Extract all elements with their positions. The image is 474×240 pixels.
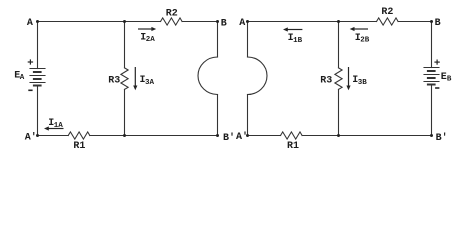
labels right circuit xyxy=(236,7,452,152)
wire R3 branch bottom (right) xyxy=(338,89,340,135)
svg-text:R1: R1 xyxy=(73,141,85,152)
wire R3 branch top (right) xyxy=(338,22,340,68)
battery EB plates xyxy=(424,68,439,85)
coupling arc right (bulge right) xyxy=(248,57,268,95)
wire right rail B to battery EB xyxy=(431,22,433,68)
svg-text:2B: 2B xyxy=(360,37,370,45)
wire top A to R3 junction and R2 xyxy=(248,21,377,23)
svg-text:1B: 1B xyxy=(293,37,303,45)
current arrows xyxy=(44,27,368,131)
node A (left circuit) xyxy=(36,20,39,23)
minus sign EB xyxy=(435,87,439,89)
node dots xyxy=(36,20,433,137)
wire right rail B to arc xyxy=(217,22,219,58)
svg-text:B': B' xyxy=(436,132,448,144)
svg-text:B: B xyxy=(435,18,441,29)
arrow I2B (left pointing) xyxy=(354,28,369,30)
node junction top R3 (right) xyxy=(337,20,340,23)
resistor R2 (right circuit) xyxy=(377,18,399,25)
plus sign EB xyxy=(434,61,439,63)
resistor R1 (left circuit) xyxy=(68,132,90,139)
node A' (right circuit) xyxy=(246,134,249,137)
node B' (right circuit) xyxy=(430,134,433,137)
node junction bottom R3 (right) xyxy=(337,134,340,137)
wire left rail A to arc (right circuit) xyxy=(247,22,249,58)
svg-text:A': A' xyxy=(25,132,37,144)
wire R1 to B' xyxy=(90,135,218,137)
wire R1 to B' (right) xyxy=(302,135,431,137)
resistor R3 (left circuit) xyxy=(121,68,128,90)
resistor R2 (left circuit) xyxy=(161,18,183,25)
minus sign EA xyxy=(28,89,32,91)
node junction bottom R3 (left) xyxy=(123,134,126,137)
svg-text:R1: R1 xyxy=(287,141,299,152)
node B (right circuit) xyxy=(430,20,433,23)
arrow I1B (left pointing) xyxy=(287,29,303,31)
svg-text:R3: R3 xyxy=(320,76,332,87)
node A (right circuit) xyxy=(246,20,249,23)
svg-text:3A: 3A xyxy=(145,79,155,87)
battery polarity marks xyxy=(28,59,440,90)
wire arc to B' xyxy=(217,95,219,136)
arrow I1A (left pointing) xyxy=(48,128,64,130)
wire R2 to B xyxy=(182,21,217,23)
node B (left circuit) xyxy=(216,20,219,23)
node junction top R3 (left) xyxy=(123,20,126,23)
svg-text:1A: 1A xyxy=(54,122,64,130)
svg-text:B: B xyxy=(447,76,452,84)
labels left circuit xyxy=(14,8,235,152)
wire bottom A' to R1 (right) xyxy=(248,135,281,137)
wire battery to A' xyxy=(37,86,39,136)
wire arc to A' (right circuit) xyxy=(247,95,249,136)
svg-text:B: B xyxy=(221,18,227,29)
wire bottom-left A' to R1 xyxy=(38,135,69,137)
svg-text:A: A xyxy=(27,18,33,29)
wire left rail A to battery xyxy=(37,22,39,69)
svg-text:R2: R2 xyxy=(381,7,393,18)
resistor R1 (right circuit) xyxy=(281,132,303,139)
node A' (left circuit) xyxy=(36,134,39,137)
wire top-left horizontal A to R2 xyxy=(38,21,161,23)
svg-text:B': B' xyxy=(223,132,235,144)
arrow I2A (right pointing) xyxy=(138,28,153,30)
svg-text:A: A xyxy=(20,74,25,82)
svg-text:R2: R2 xyxy=(166,8,178,19)
wire R3 branch bottom xyxy=(124,89,126,135)
svg-text:2A: 2A xyxy=(146,36,156,44)
wire battery EB to B' xyxy=(431,85,433,136)
resistor R3 (right circuit) xyxy=(335,68,342,90)
svg-text:A: A xyxy=(239,18,245,29)
svg-text:3B: 3B xyxy=(358,79,368,87)
wire R2 to B (right) xyxy=(398,21,431,23)
svg-text:R3: R3 xyxy=(108,76,120,87)
battery EA plates xyxy=(30,69,45,86)
arrow I3B (down pointing) xyxy=(348,67,350,87)
plus sign EA xyxy=(28,61,33,63)
node B' (left circuit) xyxy=(216,134,219,137)
wire R3 branch top xyxy=(124,22,126,68)
arrow I3A (down pointing) xyxy=(134,67,136,87)
svg-text:A': A' xyxy=(236,131,248,143)
coupling arc left (bulge left) xyxy=(198,57,217,95)
